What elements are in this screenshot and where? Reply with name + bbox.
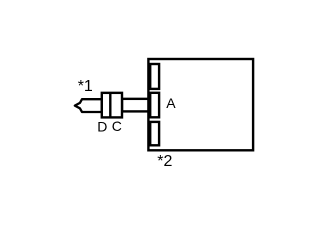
collar divider bbox=[109, 93, 111, 118]
svg-text:*1: *1 bbox=[78, 78, 93, 95]
unit box bbox=[148, 59, 253, 150]
jack contact top bbox=[150, 64, 159, 89]
svg-text:*2: *2 bbox=[157, 153, 172, 170]
svg-text:D: D bbox=[97, 118, 107, 134]
plug collar bbox=[102, 93, 122, 118]
svg-text:A: A bbox=[166, 95, 176, 111]
svg-text:C: C bbox=[112, 118, 122, 134]
jack contact bottom bbox=[150, 122, 159, 145]
plug shaft bbox=[122, 99, 148, 112]
jack contact middle bbox=[150, 93, 159, 118]
plug tip bbox=[75, 99, 102, 112]
